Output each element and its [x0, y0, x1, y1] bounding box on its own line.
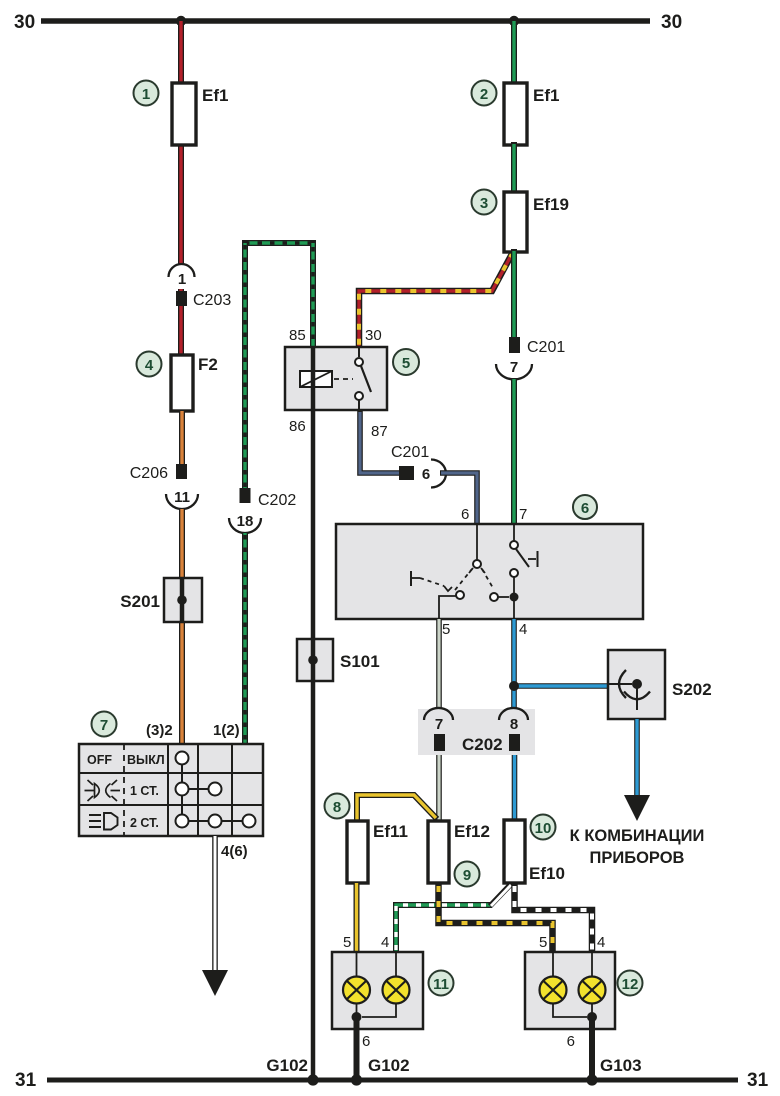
- svg-text:(3)2: (3)2: [146, 722, 173, 739]
- box6 lead from pin7: [513, 524, 515, 541]
- wire yellow Ef11 top to Ef12 top: [357, 795, 437, 824]
- connector C201 square (6): [399, 466, 414, 480]
- box6 lever: [516, 549, 529, 567]
- bulb right lamp high beam: [579, 977, 606, 1004]
- splice S201: [164, 578, 202, 622]
- relay wire through coil pin85-86: [311, 347, 316, 410]
- svg-text:5: 5: [402, 355, 410, 372]
- svg-text:4(6): 4(6): [221, 843, 248, 860]
- node junction bus30/green wire: [509, 16, 519, 26]
- svg-text:6: 6: [422, 466, 430, 483]
- node junction bus31/left lamp: [351, 1074, 362, 1085]
- callout circle 5: [393, 349, 419, 375]
- switch contact link row1-row2: [181, 765, 183, 784]
- relay contact 30: [355, 347, 363, 366]
- connector C202 band: [418, 709, 535, 755]
- left lamp ground node: [352, 1012, 362, 1022]
- svg-text:S101: S101: [340, 652, 380, 671]
- svg-text:7: 7: [435, 716, 443, 733]
- relay dashed link coil to contact: [334, 378, 353, 380]
- wire green/black dashed left vertical to connector C202: [242, 240, 248, 489]
- S202 internal dot: [632, 679, 642, 689]
- sensor S202 box: [608, 650, 665, 719]
- svg-text:4: 4: [519, 621, 527, 638]
- svg-text:2: 2: [480, 86, 488, 103]
- box6 link right contact to node: [498, 596, 509, 598]
- svg-text:87: 87: [371, 423, 388, 440]
- box6 link lower contact to node: [513, 577, 515, 593]
- connector C201 arc 6: [431, 460, 446, 488]
- wire light blue S202 to instrument cluster arrow: [634, 719, 640, 797]
- wire green/black dashed: switch to relay pin 85 (upper U path): [245, 240, 313, 246]
- svg-text:Ef1: Ef1: [533, 86, 559, 105]
- wire light blue box6 pin4 to C202: [511, 619, 517, 716]
- connector C201 arc 7: [496, 364, 532, 379]
- svg-text:1 СТ.: 1 СТ.: [130, 784, 159, 798]
- switch grid column line a: [167, 744, 169, 836]
- svg-text:Ef10: Ef10: [529, 864, 565, 883]
- switch contact link row2-row3: [181, 796, 183, 816]
- arrow ground from switch: [202, 970, 228, 996]
- svg-text:C203: C203: [193, 292, 231, 309]
- svg-text:Ef19: Ef19: [533, 195, 569, 214]
- svg-text:31: 31: [747, 1070, 769, 1091]
- svg-text:S202: S202: [672, 680, 712, 699]
- box6 apex legs: [469, 568, 485, 573]
- svg-text:3: 3: [480, 195, 488, 212]
- svg-text:8: 8: [510, 716, 518, 733]
- wire striped red/yellow Ef19 to relay pin 30: [359, 252, 513, 348]
- wire orange F2 to C206: [179, 410, 185, 466]
- svg-text:7: 7: [100, 717, 108, 734]
- fuse Ef1 (left): [172, 83, 196, 145]
- box6 stop bar right: [528, 551, 538, 567]
- svg-text:31: 31: [15, 1070, 37, 1091]
- S202 internal stem: [636, 684, 638, 710]
- right lamp leads: [553, 952, 592, 1017]
- svg-text:7: 7: [519, 506, 527, 523]
- arrow to instrument cluster: [624, 795, 650, 821]
- switch contact row1 col1: [176, 752, 189, 765]
- svg-text:Ef12: Ef12: [454, 822, 490, 841]
- fuse Ef11: [347, 821, 368, 883]
- svg-text:30: 30: [365, 327, 382, 344]
- svg-text:85: 85: [289, 327, 306, 344]
- connector C203 arc 1: [169, 264, 195, 277]
- connector C202 arc 8: [499, 708, 528, 720]
- wire green/white left lamp pin 4 to Ef10 junction: [396, 905, 492, 954]
- connector C202 arc 7: [424, 708, 453, 720]
- wire green/black dashed C202 to headlight switch: [242, 532, 248, 746]
- wire yellow Ef11 to left lamp pin 5: [354, 882, 360, 954]
- box6 lower contact: [510, 569, 518, 577]
- switch contacts row3: [176, 815, 256, 828]
- S202 internal arc left: [619, 670, 626, 698]
- callout circle 8: [325, 794, 350, 819]
- box6 dashed actuator V legs: [455, 569, 493, 590]
- svg-text:6: 6: [362, 1033, 370, 1050]
- connector C206 arc 11: [166, 494, 198, 509]
- connector C202 square left: [434, 734, 445, 751]
- svg-text:5: 5: [442, 621, 450, 638]
- relay K? box (5): [285, 347, 387, 410]
- callout circle 11: [429, 971, 454, 996]
- box6 lead node to pin4: [513, 601, 515, 619]
- svg-text:C201: C201: [391, 444, 429, 461]
- headlamp unit left box (11): [332, 952, 423, 1029]
- svg-text:10: 10: [535, 820, 552, 837]
- switch grid row line 1: [79, 772, 263, 774]
- svg-text:G102: G102: [266, 1056, 308, 1075]
- right lamp ground node: [587, 1012, 597, 1022]
- switch grid row line 2: [79, 804, 263, 806]
- svg-text:30: 30: [661, 12, 682, 33]
- svg-text:4: 4: [145, 357, 154, 374]
- svg-text:G102: G102: [368, 1056, 410, 1075]
- connector C203 square: [176, 291, 187, 306]
- callout circle 1: [134, 81, 159, 106]
- bulb left lamp high beam: [383, 977, 410, 1004]
- svg-text:C201: C201: [527, 339, 565, 356]
- wire green Ef1 to Ef19: [511, 142, 517, 195]
- switch contacts row2: [176, 783, 222, 796]
- svg-text:ВЫКЛ: ВЫКЛ: [127, 753, 165, 767]
- callout circle 6: [573, 495, 597, 519]
- callout circle 3: [472, 190, 497, 215]
- callout circle 9: [455, 862, 480, 887]
- box6 node dot: [510, 593, 519, 602]
- box6 apex contact circle: [473, 560, 481, 568]
- svg-text:2 СТ.: 2 СТ.: [130, 816, 159, 830]
- headlight switch S? box (7): [79, 744, 263, 836]
- svg-text:12: 12: [622, 976, 639, 993]
- svg-text:5: 5: [539, 934, 547, 951]
- wire light blue arc to square C202: [511, 723, 517, 736]
- fuse Ef1 (right): [504, 83, 527, 145]
- wire green bus30 to Ef1 right: [511, 21, 517, 86]
- S202 internal smile arc: [624, 692, 650, 700]
- switch grid column line b: [197, 744, 199, 836]
- wire black relay 86 to ground bus through S101: [311, 410, 316, 1080]
- wire black/white Ef10 to right lamp pin 4: [515, 883, 593, 954]
- relay contact 87: [355, 392, 363, 410]
- svg-text:30: 30: [14, 12, 35, 33]
- svg-text:18: 18: [237, 513, 254, 530]
- svg-text:4: 4: [381, 934, 389, 951]
- connector C202 arc 18: [229, 518, 261, 533]
- icon headlight: [89, 813, 118, 830]
- splice S101: [297, 639, 333, 681]
- switch grid column line c: [231, 744, 233, 836]
- fuse Ef10: [504, 820, 525, 883]
- wire black/yellow Ef12 to right lamp pin 5: [439, 883, 553, 954]
- box6 lead from pin6: [476, 524, 478, 560]
- node junction bus31/right lamp: [586, 1074, 597, 1085]
- wire white switch output to ground arrow: [212, 836, 218, 972]
- callout circle 10: [531, 815, 556, 840]
- svg-text:К КОМБИНАЦИИ: К КОМБИНАЦИИ: [570, 827, 705, 845]
- callout circle 4: [137, 352, 162, 377]
- node junction bus31/S101 wire: [307, 1074, 318, 1085]
- svg-text:ПРИБОРОВ: ПРИБОРОВ: [590, 849, 685, 867]
- svg-text:9: 9: [463, 867, 471, 884]
- wire light blue C202 to Ef10: [512, 750, 518, 822]
- svg-text:S201: S201: [120, 592, 160, 611]
- svg-text:Ef11: Ef11: [373, 822, 408, 841]
- wire orange S201 to headlight switch: [179, 620, 185, 746]
- wire red from bus 30 to Ef1: [178, 21, 184, 86]
- svg-text:Ef1: Ef1: [202, 86, 228, 105]
- wire pale green arc to square C202: [436, 723, 442, 736]
- svg-text:11: 11: [433, 976, 449, 993]
- wire red C203 to F2: [178, 289, 184, 358]
- svg-text:6: 6: [581, 500, 589, 517]
- node dot blue branch: [509, 681, 519, 691]
- wire black left lamp pin 6 to bus 31: [354, 1017, 360, 1080]
- wire green/black dashed right vertical to relay 85: [310, 240, 316, 347]
- S202 internal lead: [608, 683, 632, 685]
- svg-text:1(2): 1(2): [213, 722, 240, 739]
- box6 dashed actuator left with stop bar: [411, 571, 452, 591]
- connector C202 square right: [509, 734, 520, 751]
- box6 upper contact of high-beam switch: [510, 541, 518, 549]
- svg-text:C202: C202: [258, 492, 296, 509]
- svg-text:8: 8: [333, 799, 341, 816]
- svg-text:F2: F2: [198, 355, 218, 374]
- bulb left lamp low beam: [343, 977, 370, 1004]
- fuse Ef19: [504, 192, 527, 252]
- wire pale green box6 pin5 to C202: [436, 619, 442, 716]
- svg-text:C206: C206: [130, 465, 168, 482]
- box6 right lower contact: [490, 593, 498, 601]
- node junction bus30/red wire: [176, 16, 186, 26]
- bus 31: [47, 1078, 738, 1083]
- fuse F2: [171, 355, 193, 411]
- connector C206 square: [176, 464, 187, 479]
- svg-text:5: 5: [343, 934, 351, 951]
- svg-text:C202: C202: [462, 735, 503, 754]
- icon parking lights: [85, 780, 121, 801]
- relay lever: [361, 366, 371, 392]
- relay coil: [300, 371, 332, 387]
- wire white diagonal splice to Ef10: [490, 884, 511, 906]
- bus 30: [41, 18, 650, 24]
- switch grid dashed column separator: [123, 744, 125, 836]
- svg-text:4: 4: [597, 934, 605, 951]
- box6 lead left contact to pin5: [439, 596, 456, 619]
- wire black right lamp pin 6 to bus 31: [589, 1017, 595, 1080]
- svg-text:6: 6: [567, 1033, 575, 1050]
- bulb right lamp low beam: [540, 977, 567, 1004]
- switch module box (6): [336, 524, 643, 619]
- wire pale green C202 to Ef12: [436, 750, 442, 822]
- fuse Ef12: [428, 821, 449, 883]
- svg-text:G103: G103: [600, 1056, 642, 1075]
- wire red Ef1 to connector C203: [178, 142, 184, 265]
- svg-text:86: 86: [289, 418, 306, 435]
- callout circle 2: [472, 81, 497, 106]
- svg-text:7: 7: [510, 359, 518, 376]
- wire green Ef19 to connector C201: [511, 249, 517, 338]
- svg-text:11: 11: [174, 489, 190, 506]
- svg-text:1: 1: [142, 86, 150, 103]
- wire dark blue C201 to switch module pin 6: [440, 473, 477, 525]
- connector C201 square (7): [509, 337, 520, 353]
- box6 left lower contact: [456, 591, 464, 599]
- callout circle 7: [92, 712, 117, 737]
- wire light blue branch to S202: [514, 683, 609, 689]
- svg-text:6: 6: [461, 506, 469, 523]
- headlamp unit right box (12): [525, 952, 615, 1029]
- connector C202 square (18): [240, 488, 251, 503]
- svg-text:OFF: OFF: [87, 753, 112, 767]
- wire orange C206 to S201: [179, 508, 185, 580]
- left lamp leads: [357, 952, 397, 1017]
- wire green C201 to switch module pin 7: [511, 378, 517, 525]
- callout circle 12: [618, 971, 643, 996]
- svg-text:1: 1: [178, 271, 186, 288]
- wire dark blue relay 87 to connector C201 (6): [360, 410, 400, 473]
